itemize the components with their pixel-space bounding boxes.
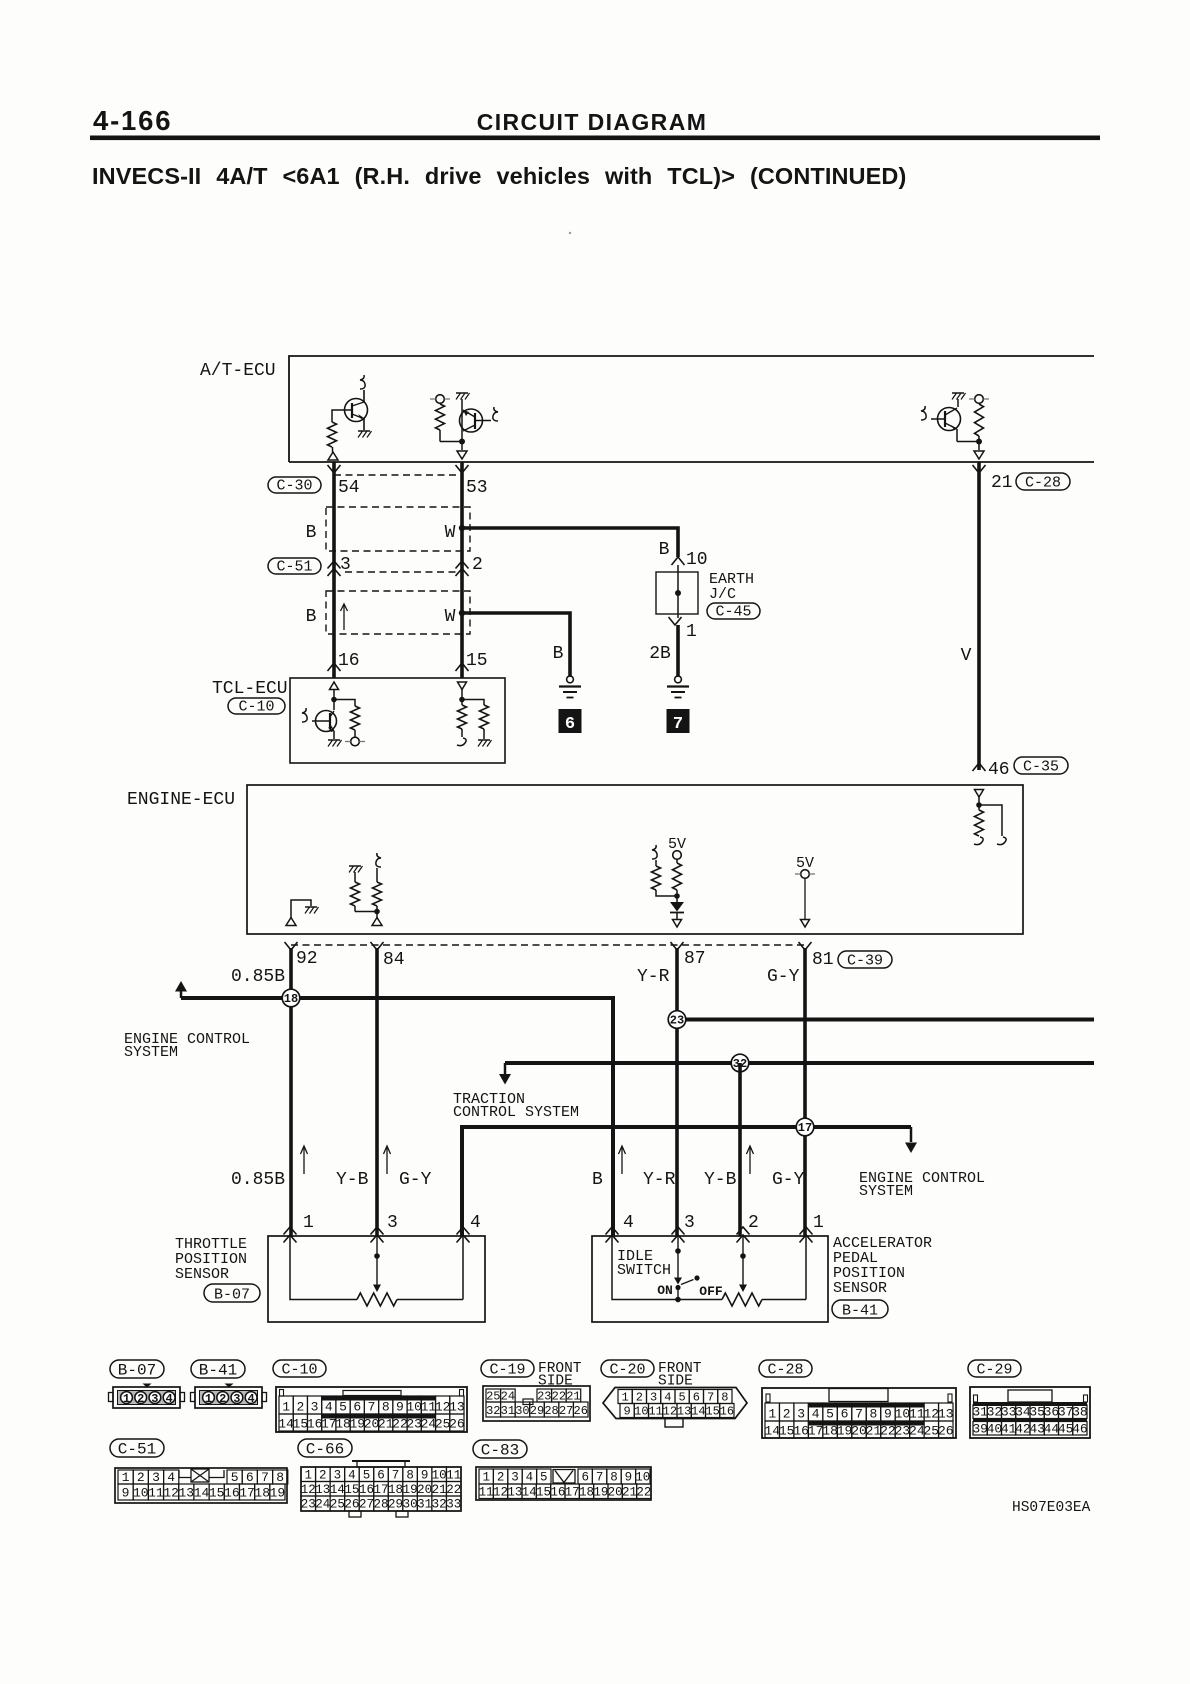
svg-text:B-07: B-07 <box>118 1362 156 1380</box>
svg-text:11: 11 <box>148 1486 164 1501</box>
wire from node 32 <box>505 1061 1094 1065</box>
node n16 <box>331 697 337 703</box>
svg-text:2: 2 <box>219 1392 226 1406</box>
Q4 base continuation curl <box>302 708 307 722</box>
R7 continuation curl <box>974 837 983 845</box>
sensor pin number 3 at x387 <box>387 1213 398 1233</box>
svg-text:15: 15 <box>779 1424 795 1439</box>
title INVECS-II 4A/T <box>92 163 906 189</box>
node n46 <box>976 802 982 808</box>
svg-text:10: 10 <box>634 1405 648 1419</box>
wire W1 to earth J/C <box>462 528 678 557</box>
pin 46 internal triangle <box>975 790 984 798</box>
svg-text:28: 28 <box>373 1498 388 1512</box>
Q2 base continuation curl <box>493 407 498 421</box>
pin 92 connector arrow <box>285 942 298 950</box>
pin number 2 (C-51) <box>472 555 483 575</box>
svg-text:14: 14 <box>764 1424 780 1439</box>
svg-text:5: 5 <box>826 1407 834 1422</box>
transistor Q2 <box>460 409 492 432</box>
svg-text:18: 18 <box>254 1486 270 1501</box>
svg-text:15: 15 <box>536 1486 551 1500</box>
pin number 21 <box>991 473 1013 493</box>
svg-text:9: 9 <box>421 1469 429 1483</box>
svg-text:3: 3 <box>151 1392 158 1406</box>
pin 15 connector arrow <box>456 663 469 671</box>
label 5V (pin 87) <box>668 836 686 853</box>
dashed harness box B1 <box>326 507 470 551</box>
label EARTH <box>709 571 754 588</box>
wire W2 to ground 6 <box>462 613 570 677</box>
svg-text:23: 23 <box>895 1424 911 1439</box>
svg-text:5: 5 <box>363 1469 371 1483</box>
svg-text:1: 1 <box>622 1391 629 1405</box>
svg-text:13: 13 <box>938 1407 954 1422</box>
resistor R11 curl <box>652 845 657 859</box>
resistor R5 <box>458 705 467 737</box>
svg-text:15: 15 <box>344 1483 359 1497</box>
label J/C <box>709 586 736 603</box>
connector view B-41 <box>191 1384 267 1409</box>
resistor R2 <box>436 404 445 442</box>
throttle pin arrows x290 <box>284 1227 297 1243</box>
Q4 emitter ground <box>328 740 342 747</box>
svg-text:15: 15 <box>209 1486 225 1501</box>
node W1 <box>459 525 465 531</box>
throttle pin arrows x463 <box>457 1227 470 1243</box>
pin 53 internal terminal triangle <box>457 442 467 460</box>
connector view C-29 <box>970 1387 1090 1438</box>
pin 54 internal terminal triangle <box>328 452 338 460</box>
svg-text:4: 4 <box>812 1407 820 1422</box>
node n87 <box>674 893 680 899</box>
resistor R8 top ground <box>349 866 363 873</box>
pin number 53 <box>466 478 488 498</box>
svg-text:B-41: B-41 <box>199 1362 237 1380</box>
pin 21 internal terminal triangle <box>974 442 984 460</box>
pin 1 connector arrow <box>669 617 682 625</box>
label OFF <box>699 1284 723 1299</box>
svg-text:2: 2 <box>319 1469 327 1483</box>
pin number 87 <box>684 949 706 969</box>
ground reference 6 <box>559 709 582 734</box>
pin 53 connector arrow <box>456 465 469 473</box>
svg-text:26: 26 <box>574 1404 588 1418</box>
svg-text:33: 33 <box>446 1498 461 1512</box>
wire label G-Y upper <box>767 967 800 987</box>
wire label G-Y lower left <box>399 1170 432 1190</box>
resistor R9 curl <box>376 853 381 867</box>
R6 ground <box>478 740 492 747</box>
resistor R4 branch <box>334 700 355 707</box>
svg-text:3: 3 <box>650 1391 657 1405</box>
wire 81 to accel pin1 <box>803 948 807 1236</box>
svg-text:3: 3 <box>311 1400 319 1415</box>
A/T-ECU box <box>289 356 1094 462</box>
flow arrow w92 <box>301 1146 308 1174</box>
direction arrow in B2 <box>341 604 348 630</box>
TCL-ECU label <box>212 679 288 699</box>
svg-text:13: 13 <box>315 1483 330 1497</box>
svg-text:14: 14 <box>330 1483 345 1497</box>
wire label Y-B lower right <box>704 1170 737 1190</box>
connector view C-20 <box>603 1388 747 1428</box>
pin number 15 <box>466 651 488 671</box>
svg-text:5: 5 <box>679 1391 686 1405</box>
connector view C-51 label <box>110 1439 164 1459</box>
svg-text:3: 3 <box>797 1407 805 1422</box>
pin 87 connector arrow <box>671 942 684 950</box>
ground reference 7 <box>667 709 690 734</box>
label IDLE SWITCH <box>617 1248 671 1279</box>
connector view B-07 label <box>110 1360 164 1380</box>
resistor R6 <box>480 705 489 739</box>
svg-text:32: 32 <box>432 1498 447 1512</box>
svg-text:8: 8 <box>610 1471 618 1485</box>
node 32 <box>731 1054 749 1072</box>
TCL-ECU box <box>290 678 505 763</box>
svg-text:29: 29 <box>388 1498 403 1512</box>
svg-text:20: 20 <box>851 1424 867 1439</box>
wire label Y-B lower left <box>336 1170 369 1190</box>
wire label 2B <box>649 644 671 664</box>
resistor R7 <box>975 810 984 836</box>
pin number 46 <box>988 760 1010 780</box>
wire 84 to throttle pin3 <box>375 948 379 1236</box>
svg-text:2: 2 <box>137 1392 144 1406</box>
svg-text:7: 7 <box>596 1471 604 1485</box>
connector label C-30 <box>268 477 321 495</box>
svg-text:13: 13 <box>507 1486 522 1500</box>
ground G7 <box>667 676 689 698</box>
terminal T3 <box>969 395 989 404</box>
svg-text:18: 18 <box>579 1486 594 1500</box>
svg-text:4: 4 <box>167 1470 175 1485</box>
resistor R8 <box>351 872 360 912</box>
throttle pot right leg <box>397 1236 463 1300</box>
wire 53 <box>460 462 464 678</box>
connector label C-35 <box>1014 757 1068 776</box>
svg-text:16: 16 <box>793 1424 809 1439</box>
svg-text:4: 4 <box>664 1391 671 1405</box>
svg-text:31: 31 <box>501 1404 515 1418</box>
Q3 collector wire <box>957 399 959 407</box>
svg-text:13: 13 <box>677 1405 691 1419</box>
svg-text:24: 24 <box>315 1498 330 1512</box>
svg-text:25: 25 <box>330 1498 345 1512</box>
svg-text:27: 27 <box>559 1404 573 1418</box>
svg-text:14: 14 <box>691 1405 705 1419</box>
pin 10 connector arrow <box>672 557 685 565</box>
connector view C-20 label <box>601 1360 654 1379</box>
label ENGINE CONTROL SYSTEM (left) <box>124 1031 250 1061</box>
svg-text:5: 5 <box>540 1471 548 1485</box>
svg-text:17: 17 <box>239 1486 255 1501</box>
wire label 0.85B upper <box>231 967 285 987</box>
wire 32 to accel pin2 <box>738 1063 742 1236</box>
svg-text:26: 26 <box>449 1417 465 1432</box>
svg-text:8: 8 <box>870 1407 878 1422</box>
accel pot resistor <box>722 1293 762 1306</box>
wire label W upper <box>445 523 456 543</box>
5V terminal (pin 81) <box>795 870 815 879</box>
sensor pin number 3 at x684 <box>684 1213 695 1233</box>
svg-text:2: 2 <box>636 1391 643 1405</box>
node 23 <box>668 1011 686 1029</box>
traction control arrow <box>499 1063 511 1085</box>
svg-text:10: 10 <box>133 1486 149 1501</box>
connector view C-28 <box>762 1388 956 1439</box>
svg-text:21: 21 <box>622 1486 637 1500</box>
pin number 92 <box>296 949 318 969</box>
R2 to node wire <box>440 441 462 443</box>
pin16 wire <box>333 690 335 711</box>
Q3 emitter wire <box>957 429 979 442</box>
connector view C-66 label <box>298 1439 352 1459</box>
wire label 0.85B lower <box>231 1170 285 1190</box>
connector label C-28 (wire) <box>1016 473 1070 492</box>
connector label C-10 (TCL) <box>228 698 285 716</box>
svg-text:8: 8 <box>721 1391 728 1405</box>
svg-text:21: 21 <box>866 1424 882 1439</box>
node n21 <box>976 439 982 445</box>
node 17 <box>796 1118 814 1136</box>
svg-text:6: 6 <box>353 1400 361 1415</box>
flow arrow w-b <box>619 1146 626 1174</box>
svg-text:8: 8 <box>406 1469 414 1483</box>
Q2 emitter-collector rail <box>461 409 463 442</box>
pin 81 internal wire <box>804 879 806 920</box>
transistor Q1 <box>345 390 368 430</box>
pin 3 connector arrows <box>328 561 341 576</box>
sensor pin number 4 at x623 <box>623 1213 634 1233</box>
Q1 emitter ground <box>358 431 372 438</box>
svg-text:9: 9 <box>625 1471 633 1485</box>
svg-text:14: 14 <box>522 1486 537 1500</box>
svg-text:10: 10 <box>895 1407 911 1422</box>
idle switch SW1 <box>674 1236 700 1302</box>
svg-text:22: 22 <box>880 1424 896 1439</box>
connector label B-07 (box) <box>204 1284 260 1304</box>
wire 2B <box>676 625 680 677</box>
wire 92 to throttle pin1 <box>289 948 293 1236</box>
pin number 3 (C-51) <box>340 555 351 575</box>
svg-text:12: 12 <box>493 1486 508 1500</box>
svg-text:1: 1 <box>123 1392 130 1406</box>
svg-text:C-66: C-66 <box>306 1441 344 1459</box>
svg-text:4: 4 <box>348 1469 356 1483</box>
connector view C-10 label <box>273 1360 326 1379</box>
svg-text:9: 9 <box>884 1407 892 1422</box>
Q3 base continuation curl <box>921 406 926 420</box>
earth J/C internal wire <box>677 565 679 618</box>
connector view C-83 <box>476 1467 651 1500</box>
R7 parallel branch <box>979 805 1002 836</box>
svg-text:21: 21 <box>432 1483 447 1497</box>
wire label B (ground 6) <box>553 644 564 664</box>
svg-text:4: 4 <box>325 1400 333 1415</box>
connector label B-41 (box) <box>832 1300 888 1320</box>
svg-text:SIDE: SIDE <box>538 1374 573 1390</box>
wire label Y-R lower <box>643 1170 676 1190</box>
svg-text:11: 11 <box>648 1405 662 1419</box>
svg-text:25: 25 <box>924 1424 940 1439</box>
wire to engine control system (18) <box>181 998 613 1236</box>
ENGINE-ECU box <box>247 785 1023 934</box>
svg-text:12: 12 <box>924 1407 940 1422</box>
svg-text:19: 19 <box>270 1486 286 1501</box>
svg-text:3: 3 <box>511 1471 519 1485</box>
pin 54 connector arrow <box>328 465 341 473</box>
svg-text:32: 32 <box>486 1404 500 1418</box>
accel pot left leg <box>612 1236 722 1300</box>
svg-text:1: 1 <box>482 1471 490 1485</box>
accel pin arrows x806 <box>800 1227 813 1243</box>
transistor Q4 <box>312 711 337 740</box>
svg-text:10: 10 <box>635 1471 650 1485</box>
engine control arrow 18 <box>175 981 187 998</box>
Q2 collector wire <box>461 399 463 409</box>
R5 continuation curl <box>457 738 466 746</box>
svg-text:26: 26 <box>344 1498 359 1512</box>
svg-text:7: 7 <box>707 1391 714 1405</box>
svg-text:C-19: C-19 <box>489 1362 525 1379</box>
svg-text:28: 28 <box>544 1404 558 1418</box>
connector view B-41 label <box>191 1360 245 1380</box>
connector view C-29 label <box>968 1360 1021 1379</box>
svg-text:8: 8 <box>382 1400 390 1415</box>
svg-text:18: 18 <box>822 1424 838 1439</box>
Q2 top ground <box>456 393 470 400</box>
label THROTTLE POSITION SENSOR <box>175 1236 247 1283</box>
label FRONT SIDE (C-19) <box>538 1361 582 1390</box>
ground G6 <box>559 676 581 698</box>
svg-text:16: 16 <box>359 1483 374 1497</box>
svg-text:C-20: C-20 <box>609 1362 645 1379</box>
svg-text:24: 24 <box>909 1424 925 1439</box>
svg-text:46: 46 <box>1072 1422 1088 1437</box>
svg-text:6: 6 <box>693 1391 700 1405</box>
pin number 1 (C-45) <box>686 622 697 642</box>
svg-text:38: 38 <box>1072 1405 1088 1420</box>
pin 15 internal triangle <box>458 682 467 690</box>
figure code HS07E03EA <box>1012 1500 1091 1516</box>
pin number 84 <box>383 950 405 970</box>
wire V <box>977 462 981 770</box>
earth junction C-45 box <box>656 572 698 614</box>
throttle pot left leg <box>290 1236 357 1300</box>
svg-text:2: 2 <box>783 1407 791 1422</box>
accel pin arrows x678 <box>672 1227 685 1243</box>
svg-text:HS07E03EA: HS07E03EA <box>1012 1500 1091 1516</box>
svg-text:26: 26 <box>938 1424 954 1439</box>
svg-text:1: 1 <box>122 1470 130 1485</box>
svg-text:20: 20 <box>608 1486 623 1500</box>
header rule <box>90 136 1100 141</box>
svg-text:22: 22 <box>636 1486 651 1500</box>
pin number 81 <box>812 950 834 970</box>
svg-text:9: 9 <box>396 1400 404 1415</box>
svg-text:2: 2 <box>137 1470 145 1485</box>
sensor pin number 1 at x303 <box>303 1213 314 1233</box>
pin 92 internal ground link <box>291 900 311 918</box>
header CIRCUIT DIAGRAM <box>477 109 708 135</box>
svg-text:11: 11 <box>446 1469 461 1483</box>
dashed connector line C-30 <box>334 474 462 476</box>
transistor Q3 <box>931 408 961 431</box>
stray speck <box>569 232 571 234</box>
pin number 16 <box>338 651 360 671</box>
svg-text:23: 23 <box>301 1498 316 1512</box>
R8-R9 junction <box>355 909 380 915</box>
svg-text:16: 16 <box>720 1405 734 1419</box>
engine control arrow 17 <box>905 1127 917 1153</box>
connector view C-10 <box>276 1387 467 1432</box>
svg-text:29: 29 <box>530 1404 544 1418</box>
sensor pin number 2 at x748 <box>748 1213 759 1233</box>
5V terminal (pin 87) <box>673 851 682 860</box>
THROTTLE POSITION SENSOR box <box>268 1236 485 1322</box>
svg-text:11: 11 <box>479 1486 494 1500</box>
svg-text:31: 31 <box>417 1498 432 1512</box>
flow arrow w84 <box>384 1146 391 1174</box>
dashed connector line C-39 <box>291 944 805 946</box>
pin 84 connector arrow <box>371 942 384 950</box>
svg-text:19: 19 <box>403 1483 418 1497</box>
svg-text:7: 7 <box>392 1469 400 1483</box>
svg-text:12: 12 <box>163 1486 179 1501</box>
pin 84 internal triangle <box>372 912 382 926</box>
svg-text:11: 11 <box>909 1407 925 1422</box>
svg-text:4: 4 <box>165 1392 172 1406</box>
connector view C-19 label <box>481 1360 534 1379</box>
svg-text:3: 3 <box>233 1392 240 1406</box>
wire label B (earth J/C) <box>659 540 670 560</box>
svg-text:19: 19 <box>593 1486 608 1500</box>
pin number 10 <box>686 550 708 570</box>
svg-text:16: 16 <box>224 1486 240 1501</box>
connector view C-66 <box>301 1461 461 1517</box>
pin15 wire <box>461 690 463 706</box>
pin 92 internal triangle <box>286 918 296 926</box>
wire label B lower <box>306 607 317 627</box>
resistor R11 <box>652 860 678 896</box>
node n15 <box>459 697 465 703</box>
svg-text:30: 30 <box>403 1498 418 1512</box>
wire label B lower <box>592 1170 603 1190</box>
svg-text:5: 5 <box>339 1400 347 1415</box>
resistor R10 <box>673 859 682 896</box>
svg-text:C-28: C-28 <box>767 1362 803 1379</box>
label ACCELERATOR PEDAL POSITION SENSOR <box>833 1235 932 1297</box>
diode D1 <box>670 896 684 919</box>
label FRONT SIDE (C-20) <box>658 1361 702 1390</box>
ENGINE-ECU label <box>127 790 235 810</box>
svg-text:8: 8 <box>276 1470 284 1485</box>
svg-text:16: 16 <box>550 1486 565 1500</box>
svg-text:19: 19 <box>837 1424 853 1439</box>
node n53 <box>459 439 465 445</box>
wire label G-Y lower right <box>772 1170 805 1190</box>
pin 81 internal triangle <box>801 920 810 928</box>
svg-text:1: 1 <box>282 1400 290 1415</box>
svg-text:15: 15 <box>705 1405 719 1419</box>
page number 4-166 <box>93 105 172 136</box>
svg-text:6: 6 <box>581 1471 589 1485</box>
connector view C-28 label <box>759 1360 812 1379</box>
svg-text:12: 12 <box>663 1405 677 1419</box>
pin46 wire <box>978 797 980 810</box>
